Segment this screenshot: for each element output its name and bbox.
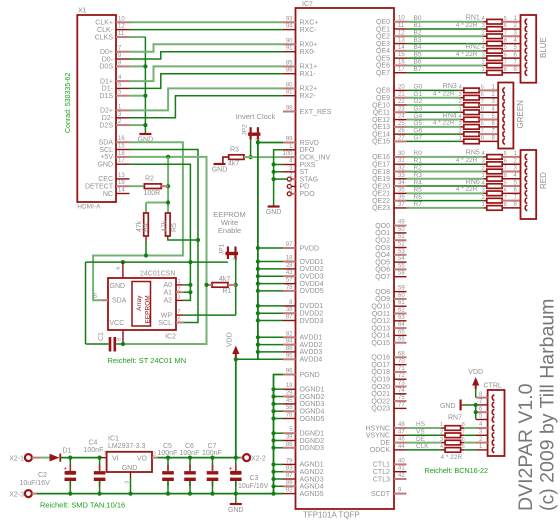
svg-text:DFO: DFO — [300, 147, 315, 154]
IC7 pin 74 QO21 — [394, 393, 407, 395]
IC7 pin 6 PDO — [291, 193, 295, 195]
svg-text:86: 86 — [286, 68, 293, 74]
IC7 pin 99 RSVD — [283, 142, 296, 144]
IC7 pin 93 RXC+ — [283, 21, 296, 23]
svg-text:R5: R5 — [171, 223, 178, 232]
X1 pin 15 SCL — [116, 149, 130, 151]
IC7 pin 32 QE18 — [394, 170, 407, 172]
svg-text:85: 85 — [286, 60, 293, 66]
svg-text:1: 1 — [482, 202, 485, 208]
pad X2-1 — [25, 454, 32, 461]
IC7 pin 17 QE7 — [394, 72, 407, 74]
svg-text:1: 1 — [482, 173, 485, 179]
svg-text:47k: 47k — [161, 220, 168, 232]
svg-text:100nF: 100nF — [84, 447, 104, 454]
svg-text:51: 51 — [398, 234, 405, 240]
IC7 pin 77 QO23 — [394, 407, 407, 409]
wire GND rail to AGND1 — [274, 463, 284, 465]
svg-text:RX0-: RX0- — [300, 49, 317, 56]
IC7 pin 60 QO9 — [394, 298, 407, 300]
IC7 pin 39 DGND2 — [283, 440, 296, 442]
svg-text:5: 5 — [94, 294, 98, 300]
wire diode to regulator input — [60, 457, 101, 459]
IC7 pin 86 RX1- — [283, 73, 296, 75]
jumper JP1 — [225, 252, 238, 255]
svg-text:4: 4 — [482, 16, 485, 22]
IC7 pin 88 AVDD3 — [283, 351, 296, 353]
IC IC2 24C01CSN box — [108, 278, 176, 330]
CTRL pin 2 — [476, 442, 488, 444]
svg-text:D0-: D0- — [102, 56, 114, 63]
IC7 pin 62 QO11 — [394, 313, 407, 315]
svg-text:79: 79 — [286, 458, 293, 464]
ground symbol shield — [139, 133, 151, 135]
svg-text:100R: 100R — [144, 190, 161, 197]
svg-text:GND: GND — [122, 465, 138, 472]
wire AVDD4 row with VDD arrow — [236, 358, 283, 360]
svg-text:4 * 22R: 4 * 22R — [456, 51, 478, 58]
svg-text:QE9: QE9 — [376, 95, 390, 102]
X1 pin 18 +5V — [116, 156, 130, 158]
IC7 pin 87 DVDD3 — [283, 320, 296, 322]
IC7 pin 24 QE12 — [394, 119, 407, 121]
svg-text:2: 2 — [482, 166, 485, 172]
svg-text:Invert Clock: Invert Clock — [236, 112, 276, 121]
wire net R4 — [407, 185, 484, 187]
resistor network RN4 element G5 — [460, 126, 464, 128]
svg-text:86: 86 — [286, 442, 293, 448]
svg-text:12: 12 — [398, 30, 405, 36]
svg-text:Reichelt: BCN16-22: Reichelt: BCN16-22 — [425, 466, 489, 475]
svg-text:SCL: SCL — [99, 147, 113, 154]
svg-text:17: 17 — [118, 158, 125, 164]
junction gnd C7 — [210, 492, 214, 496]
svg-text:4 * 22R: 4 * 22R — [456, 186, 478, 193]
svg-text:OVDD4: OVDD4 — [300, 281, 324, 288]
wire VDD rail to AVDD2 — [258, 344, 283, 346]
svg-text:DGND1: DGND1 — [300, 431, 325, 438]
svg-text:OVDD5: OVDD5 — [300, 288, 324, 295]
svg-text:82: 82 — [286, 331, 293, 337]
IC7 pin 26 QE14 — [394, 133, 407, 135]
wire net CLK (sync) — [407, 449, 442, 451]
IC7 pin 46 DE — [394, 442, 407, 444]
svg-text:41: 41 — [398, 466, 405, 472]
svg-text:RX2+: RX2+ — [300, 86, 318, 93]
svg-text:59: 59 — [398, 286, 405, 292]
svg-text:11: 11 — [118, 31, 125, 37]
svg-text:23: 23 — [398, 106, 405, 112]
svg-text:+: + — [229, 466, 233, 472]
svg-text:TFP101A TQFP: TFP101A TQFP — [303, 511, 360, 520]
svg-text:QE19: QE19 — [372, 176, 390, 183]
svg-text:7: 7 — [178, 309, 181, 315]
wire GND to CTRL pins 5 6 7 — [462, 404, 476, 406]
svg-text:RN4: RN4 — [443, 112, 457, 119]
IC7 pin 22 QE10 — [394, 104, 407, 106]
connector X1 HDMI-A box — [77, 15, 116, 202]
svg-text:AVDD4: AVDD4 — [300, 357, 323, 364]
svg-text:OCK_INV: OCK_INV — [300, 154, 331, 161]
svg-text:SCL: SCL — [158, 320, 172, 327]
svg-text:6: 6 — [504, 23, 507, 29]
CTRL pin 3 — [476, 434, 488, 436]
X1 pin 10 CLK+ — [116, 21, 130, 23]
svg-text:4k7: 4k7 — [219, 276, 230, 283]
IC7 pin 92 AGND5 — [283, 493, 296, 495]
svg-text:93: 93 — [286, 16, 293, 22]
resistor network RN2 element B6 — [483, 64, 487, 66]
junction ST — [272, 170, 276, 174]
resistor network RN5 element R1 — [483, 163, 487, 165]
svg-text:2: 2 — [482, 60, 485, 66]
svg-text:68: 68 — [398, 351, 405, 357]
svg-text:QO3: QO3 — [375, 245, 390, 252]
svg-text:QO10: QO10 — [371, 304, 390, 311]
wire GND rail to OGND3 — [274, 403, 284, 405]
wire VDD to CTRL pin 8 — [475, 389, 477, 398]
svg-text:3: 3 — [482, 52, 485, 58]
svg-text:2: 2 — [153, 452, 156, 458]
svg-text:10uF/16V: 10uF/16V — [238, 483, 269, 490]
IC7 pin 89 AGND4 — [283, 485, 296, 487]
svg-text:JP1: JP1 — [219, 243, 226, 255]
svg-text:Reichelt: ST 24C01 MN: Reichelt: ST 24C01 MN — [108, 356, 187, 365]
svg-text:38: 38 — [286, 307, 293, 313]
wire VDD rail to OVDD1 — [258, 261, 283, 263]
wire VDD rail to OVDD4 — [258, 283, 283, 285]
svg-text:QE7: QE7 — [376, 70, 390, 77]
wire net D2- (to RX2-) — [130, 96, 284, 118]
wire 3.3V output row — [158, 457, 240, 459]
svg-text:X2-2: X2-2 — [251, 455, 266, 462]
svg-text:8: 8 — [462, 422, 465, 428]
svg-text:81: 81 — [286, 90, 293, 96]
svg-text:QO11: QO11 — [372, 311, 390, 318]
svg-text:6: 6 — [118, 82, 122, 88]
IC7 pin 75 QO22 — [394, 400, 407, 402]
wire VDD rail to OVDD3 — [258, 275, 283, 277]
IC2 pin 3 A2 — [176, 299, 183, 301]
svg-text:C7: C7 — [208, 443, 217, 450]
junction SCL / R5 — [196, 238, 200, 242]
wire GND rail to AGND4 — [274, 485, 284, 487]
X1 pin 3 D2- — [116, 117, 130, 119]
wire net B2 — [407, 35, 484, 37]
wire net G3 — [407, 111, 461, 113]
resistor R4 47k (SDA pullup) — [144, 213, 149, 236]
svg-text:78: 78 — [286, 285, 293, 291]
junction GND pin7 — [474, 403, 478, 407]
svg-text:VDD: VDD — [468, 369, 483, 376]
IC7 pin 54 QO5 — [394, 261, 407, 263]
junction C6 — [188, 456, 192, 460]
svg-text:4: 4 — [482, 180, 485, 186]
wire net VS (sync) — [407, 434, 442, 436]
svg-text:PIXS: PIXS — [300, 162, 316, 169]
svg-text:ODCK: ODCK — [370, 447, 391, 454]
ground symbol supply — [235, 494, 237, 504]
resistor network RN1 element B1 — [483, 28, 487, 30]
svg-text:13: 13 — [398, 38, 405, 44]
svg-text:BLUE: BLUE — [539, 37, 548, 58]
svg-text:HS: HS — [416, 421, 426, 428]
svg-text:R0: R0 — [414, 150, 423, 157]
IC7 pin 16 QE6 — [394, 64, 407, 66]
svg-text:DGND2: DGND2 — [300, 438, 325, 445]
svg-text:1: 1 — [482, 38, 485, 44]
svg-text:OVDD1: OVDD1 — [300, 259, 324, 266]
svg-text:6: 6 — [481, 121, 484, 127]
svg-text:QE8: QE8 — [376, 88, 390, 95]
svg-text:QO5: QO5 — [375, 259, 390, 266]
wire net SDA — [93, 142, 183, 300]
resistor network RN1 element B3 — [483, 43, 487, 45]
svg-text:75: 75 — [398, 395, 405, 401]
svg-text:RX2-: RX2- — [300, 93, 317, 100]
svg-text:11: 11 — [398, 23, 405, 29]
IC7 pin 98 EXT_RES — [283, 111, 296, 113]
svg-text:95: 95 — [286, 353, 293, 359]
svg-text:76: 76 — [286, 413, 293, 419]
svg-text:DETECT: DETECT — [85, 184, 114, 191]
svg-text:CTL1: CTL1 — [373, 462, 390, 469]
junction shield D1S — [143, 94, 147, 98]
svg-text:+: + — [63, 466, 67, 472]
svg-text:4: 4 — [440, 444, 443, 450]
IC7 pin 10 QE0 — [394, 21, 407, 23]
ground symbol logic pins — [268, 205, 280, 207]
svg-text:19: 19 — [286, 383, 293, 389]
svg-text:B1: B1 — [414, 22, 422, 29]
svg-text:QO1: QO1 — [375, 230, 390, 237]
svg-text:SCDT: SCDT — [371, 491, 391, 498]
svg-text:22: 22 — [398, 99, 405, 105]
svg-text:8: 8 — [117, 338, 123, 341]
svg-text:CEC: CEC — [98, 176, 113, 183]
svg-text:G5: G5 — [414, 120, 423, 127]
svg-text:AGND3: AGND3 — [300, 476, 324, 483]
svg-text:8: 8 — [504, 38, 507, 44]
X1 pin 11 CLKS — [116, 36, 130, 38]
resistor R3 4k7 — [229, 155, 244, 160]
svg-text:AVDD2: AVDD2 — [300, 342, 323, 349]
svg-text:QO12: QO12 — [371, 318, 390, 325]
wire net GND from X1 pin 17 — [130, 164, 191, 300]
svg-text:SDA: SDA — [99, 140, 114, 147]
junction C5 — [166, 456, 170, 460]
IC7 pin 63 QO12 — [394, 320, 407, 322]
IC7 pin 95 AVDD4 — [283, 358, 296, 360]
junction A0 — [188, 283, 192, 287]
IC7 pin 11 QE1 — [394, 28, 407, 30]
svg-text:SDA: SDA — [112, 298, 127, 305]
svg-text:B6: B6 — [414, 59, 422, 66]
svg-text:3: 3 — [440, 437, 443, 443]
svg-text:OGND2: OGND2 — [300, 394, 325, 401]
svg-text:(c) 2009 by Till Harbaum: (c) 2009 by Till Harbaum — [537, 299, 559, 511]
svg-text:5: 5 — [504, 151, 507, 157]
junction GND line / GND vertical — [188, 260, 192, 264]
svg-text:CTRL: CTRL — [484, 383, 502, 390]
wire net R2 — [407, 170, 484, 172]
X1 pin 8 D0S — [116, 65, 130, 67]
IC7 pin 91 RX0- — [283, 51, 296, 53]
IC7 pin 31 QE17 — [394, 163, 407, 165]
svg-text:A0: A0 — [163, 282, 172, 289]
svg-text:RN2: RN2 — [466, 44, 480, 51]
svg-text:DVDD1: DVDD1 — [300, 303, 324, 310]
svg-text:PGND: PGND — [300, 372, 320, 379]
svg-text:QE14: QE14 — [372, 131, 390, 138]
wire net D0- (to RX0-) — [130, 52, 284, 59]
IC7 pin 83 AGND2 — [283, 471, 296, 473]
X1 pin 2 D2S — [116, 124, 130, 126]
svg-text:43: 43 — [286, 270, 293, 276]
svg-text:AGND4: AGND4 — [300, 484, 324, 491]
svg-text:5: 5 — [462, 444, 465, 450]
svg-text:58: 58 — [286, 405, 293, 411]
svg-text:QE12: QE12 — [372, 117, 390, 124]
svg-text:QE11: QE11 — [373, 110, 390, 117]
svg-text:AVDD3: AVDD3 — [300, 349, 323, 356]
svg-text:18: 18 — [286, 256, 293, 262]
svg-text:15: 15 — [118, 144, 125, 150]
svg-text:96: 96 — [286, 369, 293, 375]
IC7 pin 21 QE9 — [394, 97, 407, 99]
pad X2-2 — [240, 457, 244, 459]
svg-text:14: 14 — [398, 45, 405, 51]
resistor network RN7 element HS — [442, 427, 446, 429]
IC2 pin 1 A0 — [176, 284, 183, 286]
capacitor C7 100nF — [212, 458, 214, 471]
CTRL pin 6 — [476, 411, 488, 413]
svg-text:QE15: QE15 — [372, 139, 390, 146]
svg-text:74: 74 — [398, 388, 405, 394]
svg-text:7: 7 — [289, 180, 293, 186]
svg-text:QE5: QE5 — [376, 55, 390, 62]
svg-text:5: 5 — [504, 16, 507, 22]
IC7 pin 97 PVDD — [283, 247, 296, 249]
capacitor C5 100nF — [167, 458, 169, 471]
IC2 pin 4 GND (top) — [122, 262, 124, 278]
wire JP2 pin1 to OCK_INV — [250, 140, 252, 157]
junction gnd C2 — [68, 492, 72, 496]
svg-text:49: 49 — [398, 220, 405, 226]
svg-text:8: 8 — [504, 202, 507, 208]
power symbol VDD (CTRL) — [472, 377, 479, 386]
junction R1 right / WP net — [234, 283, 238, 287]
IC7 pin 43 OVDD3 — [283, 275, 296, 277]
X1 pin 7 D0+ — [116, 51, 130, 53]
svg-text:PVDD: PVDD — [300, 245, 319, 252]
svg-text:AVDD1: AVDD1 — [300, 335, 323, 342]
capacitor C1 — [86, 343, 109, 345]
svg-text:GND: GND — [110, 283, 126, 290]
svg-text:88: 88 — [286, 346, 293, 352]
IC7 pin 79 AGND1 — [283, 463, 296, 465]
resistor R1 4k7 (WP pullup) — [212, 283, 228, 288]
svg-text:39: 39 — [286, 435, 293, 441]
svg-text:4: 4 — [459, 85, 462, 91]
svg-text:77: 77 — [398, 402, 405, 408]
wire net shield CLKS/D0S/D1S/D2S to GND — [130, 36, 146, 38]
svg-text:10: 10 — [118, 16, 125, 22]
svg-text:58: 58 — [398, 271, 405, 277]
svg-text:3: 3 — [482, 23, 485, 29]
svg-text:7: 7 — [504, 60, 507, 66]
svg-text:WP: WP — [161, 312, 173, 319]
svg-text:2: 2 — [459, 128, 462, 134]
connector GREEN — [498, 83, 513, 149]
svg-text:CLK-: CLK- — [97, 27, 114, 34]
svg-text:6: 6 — [178, 317, 181, 323]
wire net G6 — [407, 133, 461, 135]
svg-text:R7: R7 — [414, 201, 423, 208]
wire GND rail to DGND2 — [274, 440, 284, 442]
wire net D1+ (to RX1+) — [130, 66, 284, 81]
svg-text:3: 3 — [482, 158, 485, 164]
svg-text:RN1: RN1 — [466, 15, 480, 22]
svg-text:VI: VI — [112, 456, 119, 463]
svg-text:6: 6 — [481, 92, 484, 98]
svg-text:R4: R4 — [414, 179, 423, 186]
svg-text:PDO: PDO — [300, 191, 316, 198]
resistor network RN3 element G0 — [460, 89, 464, 91]
svg-text:84: 84 — [286, 339, 293, 345]
svg-text:52: 52 — [398, 242, 405, 248]
wire GND rail to OGND4 — [274, 410, 284, 412]
svg-text:50: 50 — [398, 227, 405, 233]
wire net SCL — [130, 150, 199, 323]
svg-text:66: 66 — [398, 337, 405, 343]
IC7 pin 1 DFO — [283, 149, 296, 151]
svg-text:QE1: QE1 — [376, 26, 390, 33]
svg-text:8: 8 — [481, 136, 484, 142]
svg-text:QO9: QO9 — [375, 296, 390, 303]
svg-text:QE17: QE17 — [372, 161, 390, 168]
IC IC7 TFP101A TQFP box — [296, 8, 395, 509]
svg-text:QO0: QO0 — [375, 223, 390, 230]
svg-text:26: 26 — [398, 128, 405, 134]
svg-text:R1: R1 — [414, 157, 423, 164]
svg-text:5: 5 — [481, 114, 484, 120]
wire net B1 — [407, 28, 484, 30]
svg-text:RX1-: RX1- — [300, 71, 317, 78]
X1 pin 5 D1S — [116, 95, 130, 97]
wire net G1 — [407, 97, 461, 99]
wire GND rail to DGND1 — [274, 432, 284, 434]
svg-text:G4: G4 — [414, 113, 423, 120]
svg-text:54: 54 — [398, 256, 405, 262]
wire VDD rail to AVDD1 — [258, 336, 283, 338]
junction C4 — [98, 456, 102, 460]
svg-text:100nF: 100nF — [180, 450, 200, 457]
svg-text:D0+: D0+ — [100, 49, 113, 56]
IC7 pin 53 QO4 — [394, 254, 407, 256]
svg-text:1: 1 — [459, 136, 462, 142]
wire IC2 address pins A0 A1 A2 to GND vertical — [183, 284, 190, 286]
svg-text:62: 62 — [398, 308, 405, 314]
svg-text:7: 7 — [504, 30, 507, 36]
connector RED — [521, 150, 537, 219]
svg-text:RXC+: RXC+ — [300, 20, 319, 27]
connector BLUE — [521, 15, 537, 83]
svg-text:5: 5 — [504, 180, 507, 186]
IC7 pin 37 QE23 — [394, 207, 407, 209]
svg-text:12: 12 — [118, 24, 125, 30]
svg-text:QO21: QO21 — [371, 391, 390, 398]
